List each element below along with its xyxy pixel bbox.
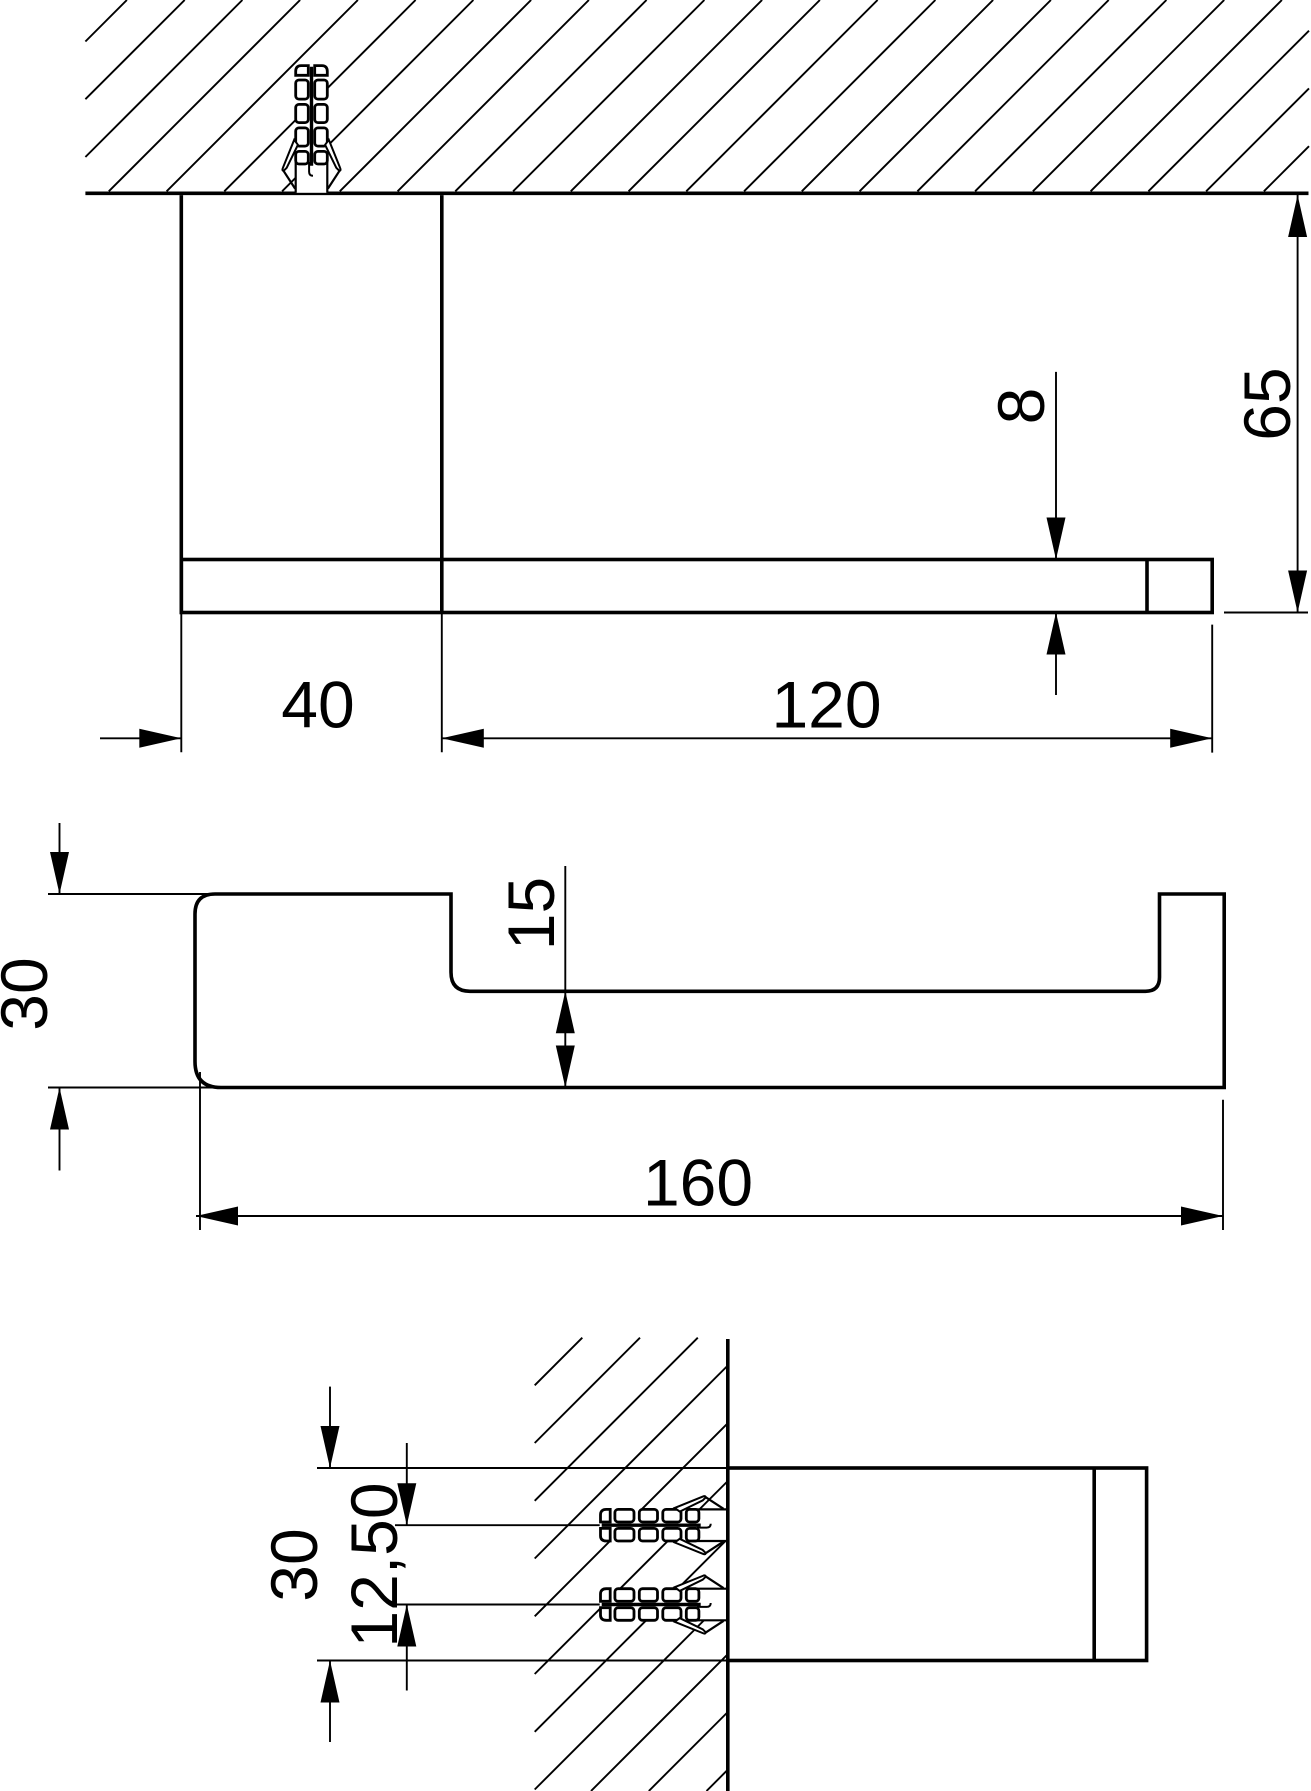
- middle dimension 30: extension lines: [48, 823, 216, 1171]
- holder bar (top view): [181, 560, 1212, 613]
- svg-text:30: 30: [257, 1528, 331, 1601]
- svg-text:160: 160: [643, 1146, 753, 1220]
- dimension 30 (bottom): extension lines: [317, 1387, 726, 1742]
- dimension 12,50: center/extension lines: [395, 1524, 604, 1526]
- holder mounting plate left edge (top view): [180, 195, 184, 612]
- holder profile rectangle (bottom view): [728, 1468, 1147, 1661]
- wall hatching (top view): [85, 0, 1309, 191]
- svg-text:65: 65: [1230, 367, 1304, 440]
- dimensions 40/120: extension lines: [100, 613, 1212, 753]
- svg-text:15: 15: [494, 877, 568, 950]
- dimension 12,50: arrowheads: [397, 1483, 416, 1525]
- holder plate/arm boundary line (top view): [440, 195, 444, 612]
- wall surface line (top view): [85, 192, 1308, 196]
- dimension 40: outside tail line: [100, 737, 181, 739]
- dimension 40/120 shared arrowhead: [442, 729, 484, 748]
- dimension 15: arrowheads: [556, 991, 575, 1033]
- holder end cap line (bottom view): [1092, 1468, 1096, 1661]
- dimension 65: dim line: [1297, 195, 1299, 613]
- svg-text:30: 30: [0, 957, 61, 1030]
- dimension 120: dim line: [442, 737, 1212, 739]
- svg-text:8: 8: [984, 388, 1058, 425]
- wall face line (bottom view): [726, 1339, 730, 1791]
- dimension 65: extension line: [1224, 612, 1308, 614]
- dimension 40: arrowhead at left plate edge: [139, 729, 181, 748]
- wall plug lower (bottom view): [600, 1575, 728, 1633]
- dimension 120: right arrowhead: [1170, 729, 1212, 748]
- wall plug upper (bottom view): [600, 1496, 728, 1554]
- dimension 8: arrowheads: [1047, 518, 1066, 560]
- dimension 8: leader lines: [1055, 372, 1057, 695]
- dimension 15: dim line: [564, 866, 566, 1088]
- wall hatching (bottom view): [535, 1338, 728, 1791]
- dimension 65: arrowheads: [1288, 195, 1307, 237]
- svg-text:40: 40: [281, 668, 354, 742]
- dimension 30 (bottom): arrowheads: [321, 1426, 340, 1468]
- dimension 160: extension lines: [196, 1072, 1223, 1230]
- dimension 160: arrowheads: [196, 1207, 238, 1226]
- bar end cap separator (top view): [1145, 560, 1149, 613]
- svg-text:12,50: 12,50: [337, 1482, 411, 1647]
- middle dimension 30: arrowheads: [50, 852, 69, 894]
- svg-text:120: 120: [771, 668, 881, 742]
- wall plug / dowel (top view, vertical): [282, 65, 340, 193]
- holder outline (middle/plan view): [195, 894, 1224, 1088]
